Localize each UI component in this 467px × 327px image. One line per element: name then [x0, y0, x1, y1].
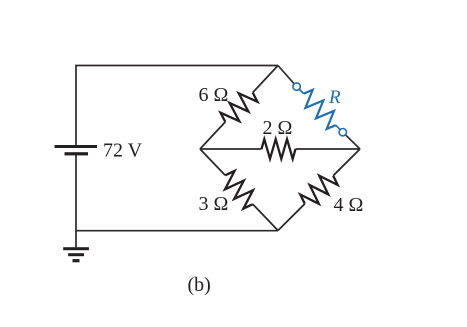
resistor 4 ohm zigzag: [300, 176, 337, 204]
terminal a (open circle): [293, 83, 300, 90]
resistor R zigzag (blue): [304, 90, 336, 129]
wire: left node to 6-ohm: [200, 122, 225, 149]
wire: battery bottom to bottom rail to bottom node: [76, 155, 278, 231]
battery V1 plates: [55, 145, 98, 155]
wire: ground stem: [75, 231, 77, 248]
svg-text:6 Ω: 6 Ω: [199, 84, 229, 106]
wire: 6-ohm to top node: [253, 66, 278, 93]
svg-text:(b): (b): [188, 274, 211, 296]
terminal b (open circle): [339, 129, 346, 136]
wire: left rail + top rail (battery to top node): [76, 66, 278, 146]
resistor 3 ohm zigzag: [225, 171, 253, 209]
ground: [63, 247, 89, 262]
wire: 2-ohm to right node: [296, 148, 361, 150]
wire: left node to 2-ohm: [200, 148, 262, 150]
wire: blue lead terminal a to R zigzag: [297, 87, 304, 94]
svg-text:R: R: [328, 87, 341, 108]
wire: top node to terminal a: [278, 66, 297, 87]
svg-text:2 Ω: 2 Ω: [263, 117, 293, 139]
svg-text:72 V: 72 V: [103, 140, 143, 162]
wire: terminal b to right node: [343, 132, 360, 149]
wire: blue lead R zigzag to terminal b: [336, 125, 343, 132]
svg-text:4 Ω: 4 Ω: [334, 194, 364, 216]
wire: left node to 3-ohm: [200, 149, 225, 175]
wire: 3-ohm to bottom node: [253, 204, 278, 230]
resistor 2 ohm zigzag: [262, 139, 296, 159]
resistor 6 ohm zigzag: [221, 93, 258, 122]
wire: bottom node to 4-ohm: [278, 204, 305, 231]
svg-text:3 Ω: 3 Ω: [199, 193, 229, 215]
wire: 4-ohm to right node: [333, 149, 360, 176]
